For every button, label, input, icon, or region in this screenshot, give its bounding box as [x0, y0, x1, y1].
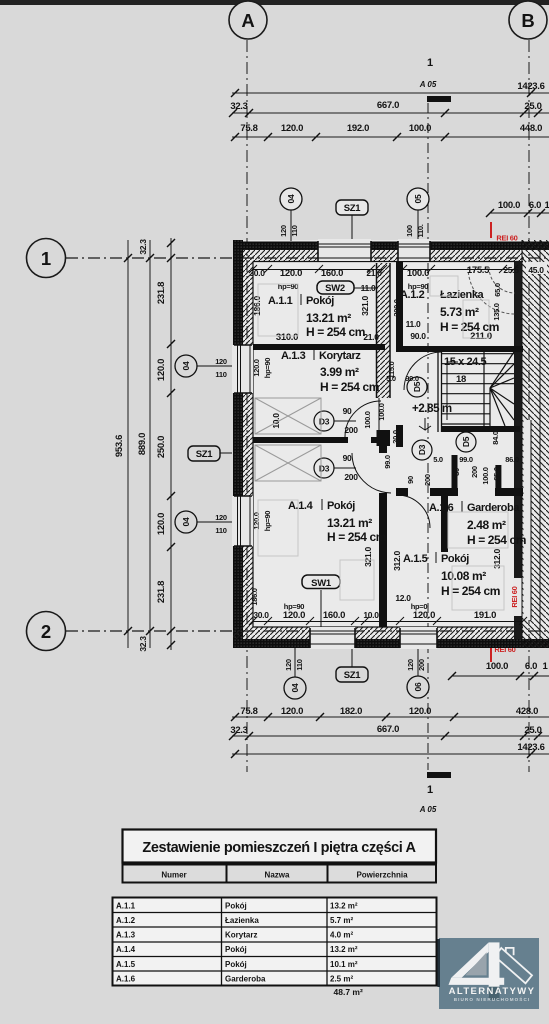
table title box: [123, 830, 437, 863]
svg-text:A.1.4: A.1.4: [116, 945, 136, 954]
svg-text:120.0: 120.0: [156, 359, 167, 381]
svg-text:99.0: 99.0: [383, 455, 392, 469]
svg-text:REI 60: REI 60: [496, 234, 517, 243]
top dimension ticks: [229, 89, 542, 141]
svg-text:25.0: 25.0: [524, 101, 541, 112]
stair direction arrow: [447, 362, 458, 420]
grid line A (vertical dash-dot): [246, 40, 248, 772]
svg-text:5.73 m²: 5.73 m²: [440, 305, 479, 319]
bottom dimension ticks: [229, 713, 542, 758]
svg-text:D3: D3: [319, 417, 330, 427]
wardrobe X boxes in corridor: [255, 398, 321, 481]
svg-text:321.0: 321.0: [363, 547, 373, 567]
svg-text:231.8: 231.8: [156, 282, 167, 304]
bathroom/stairs horizontal wall: [403, 346, 523, 352]
bathroom left wall: [396, 261, 403, 352]
interior wall A.1.1/A.1.3 horizontal: [253, 344, 385, 350]
top outer wall hatch leaf: [233, 250, 523, 262]
left dimension ticks: [124, 239, 175, 649]
svg-text:99.0: 99.0: [459, 455, 473, 464]
svg-text:05: 05: [413, 194, 423, 203]
bottom outer wall hatch leaf: [233, 627, 523, 639]
svg-text:hp=90: hp=90: [278, 282, 299, 291]
right neighbouring hatched zone: [522, 240, 549, 648]
furniture hints: [258, 276, 508, 610]
bottom outer wall insulated leaf: [233, 639, 549, 648]
door arc corridor up: [345, 401, 381, 437]
svg-text:D5: D5: [461, 436, 471, 447]
svg-text:A.1.6: A.1.6: [116, 975, 136, 984]
svg-text:2: 2: [41, 621, 51, 642]
left outer wall hatch leaf: [243, 249, 253, 627]
grid bubble A: [229, 1, 267, 39]
logo dark sliver: [438, 939, 441, 987]
garderoba / landing wall: [396, 488, 408, 496]
interior dim line bathroom: [399, 265, 518, 273]
svg-text:13.21 m²: 13.21 m²: [306, 311, 351, 325]
svg-text:SW1: SW1: [311, 578, 332, 589]
svg-text:hp=90: hp=90: [263, 358, 272, 379]
table row texts: [116, 902, 358, 984]
svg-text:100.0: 100.0: [363, 411, 372, 428]
svg-text:BIURO NIERUCHOMOŚCI: BIURO NIERUCHOMOŚCI: [454, 996, 531, 1002]
svg-text:200: 200: [470, 466, 479, 478]
svg-text:Zestawienie pomieszczeń I pięt: Zestawienie pomieszczeń I piętra części …: [142, 840, 416, 856]
svg-text:15 x 24.5: 15 x 24.5: [444, 356, 487, 368]
garderoba left wall: [441, 488, 448, 552]
svg-text:4.0 m²: 4.0 m²: [330, 931, 353, 940]
svg-text:04: 04: [181, 361, 191, 370]
grid line 1 (horizontal dash-dot): [66, 257, 549, 259]
window 100.0 in top wall (bathroom): [398, 239, 430, 261]
svg-text:13.2 m²: 13.2 m²: [330, 945, 358, 954]
svg-text:110: 110: [290, 225, 299, 236]
svg-text:30.0: 30.0: [249, 268, 265, 278]
svg-text:120: 120: [215, 513, 227, 522]
svg-text:321.0: 321.0: [360, 296, 370, 316]
svg-text:Pokój: Pokój: [225, 960, 247, 969]
right party wall: [514, 261, 522, 639]
grid bubble 2: [27, 612, 66, 651]
svg-text:32.3: 32.3: [230, 101, 247, 112]
svg-text:110: 110: [215, 526, 226, 535]
wall A.1.4 / A.1.5 vertical: [379, 437, 387, 453]
door hp=0 in bottom wall: [400, 627, 437, 649]
grid bubble 1: [27, 239, 66, 278]
svg-text:04: 04: [290, 683, 300, 692]
svg-text:A.1.1: A.1.1: [268, 295, 293, 307]
stairs treads: [441, 352, 514, 426]
svg-text:10.0: 10.0: [363, 610, 379, 620]
svg-text:06: 06: [413, 682, 423, 691]
svg-text:Pokój: Pokój: [441, 553, 469, 565]
svg-text:Łazienka: Łazienka: [225, 916, 259, 925]
svg-text:SZ1: SZ1: [344, 670, 362, 681]
svg-text:84.0: 84.0: [491, 431, 500, 445]
grid line 2 (horizontal dash-dot): [66, 630, 549, 632]
svg-text:2.5 m²: 2.5 m²: [330, 975, 353, 984]
svg-text:110: 110: [295, 659, 304, 670]
door tag D3 upper: [314, 411, 334, 431]
svg-text:65.0: 65.0: [492, 467, 501, 481]
svg-text:182.0: 182.0: [340, 706, 362, 717]
svg-text:A.1.5: A.1.5: [403, 553, 428, 565]
svg-text:Numer: Numer: [161, 871, 186, 880]
window SW1 in bottom wall: [310, 627, 355, 649]
svg-text:186.0: 186.0: [252, 296, 262, 316]
svg-text:100: 100: [405, 225, 414, 237]
stair bottom wall: [441, 426, 520, 432]
svg-text:Korytarz: Korytarz: [319, 350, 361, 362]
logo background plate: [439, 938, 539, 1009]
svg-text:13.2 m²: 13.2 m²: [330, 902, 358, 911]
logo 4 glyph vertical stroke: [489, 942, 500, 996]
svg-text:5.7 m²: 5.7 m²: [330, 916, 353, 925]
svg-text:A.1.3: A.1.3: [116, 931, 136, 940]
corridor door gap + jamb: [378, 398, 380, 430]
svg-text:ALTERNATYWY: ALTERNATYWY: [449, 986, 536, 997]
svg-text:90: 90: [406, 476, 415, 484]
shower arcs: [489, 267, 515, 293]
svg-text:H = 254 cm: H = 254 cm: [467, 533, 526, 547]
svg-text:200: 200: [344, 472, 358, 482]
svg-text:6.0: 6.0: [525, 661, 537, 672]
top annotation: SZ1 box: [336, 200, 368, 215]
left dimension lines: [128, 238, 171, 650]
svg-text:SW2: SW2: [325, 283, 345, 294]
svg-text:A.1.4: A.1.4: [288, 500, 314, 512]
svg-text:25.5: 25.5: [503, 265, 519, 275]
svg-text:120: 120: [279, 225, 288, 237]
left annotation: SZ1 box: [188, 446, 220, 461]
svg-text:186.0: 186.0: [250, 588, 259, 605]
svg-text:H = 254 cm: H = 254 cm: [306, 325, 365, 339]
svg-text:21.0: 21.0: [363, 332, 379, 342]
svg-text:32.3: 32.3: [230, 725, 247, 736]
svg-text:200.0: 200.0: [392, 299, 401, 316]
svg-text:115.0: 115.0: [387, 361, 396, 378]
svg-text:120: 120: [215, 357, 227, 366]
interior dim line bottom rooms: [249, 617, 527, 625]
svg-text:30.0: 30.0: [253, 610, 269, 620]
section line 1-1 (vertical dash-dot): [427, 103, 429, 770]
svg-text:11.0: 11.0: [406, 319, 421, 329]
logo chimney: [506, 948, 514, 955]
svg-text:100.0: 100.0: [481, 467, 490, 484]
svg-text:667.0: 667.0: [377, 724, 399, 735]
svg-text:90.0: 90.0: [410, 331, 426, 341]
svg-text:86.0: 86.0: [505, 455, 519, 464]
svg-text:A.1.3: A.1.3: [281, 350, 306, 362]
door arc bathroom: [404, 352, 442, 390]
svg-text:H = 254 cm: H = 254 cm: [327, 530, 386, 544]
svg-text:32.3: 32.3: [138, 636, 148, 652]
svg-text:04: 04: [286, 194, 296, 203]
svg-text:192.0: 192.0: [347, 123, 369, 134]
svg-text:D3: D3: [319, 464, 330, 474]
svg-text:667.0: 667.0: [377, 100, 399, 111]
svg-text:175.5: 175.5: [467, 265, 490, 276]
svg-text:250.0: 250.0: [156, 436, 167, 458]
svg-text:11.0: 11.0: [361, 283, 376, 293]
REI 60 red top: [490, 222, 492, 238]
svg-text:191.0: 191.0: [474, 610, 496, 621]
svg-text:21.0: 21.0: [366, 268, 382, 278]
svg-text:1: 1: [41, 248, 51, 269]
svg-text:A.1.1: A.1.1: [116, 902, 136, 911]
svg-text:25.0: 25.0: [524, 725, 541, 736]
svg-text:10.08 m²: 10.08 m²: [441, 569, 486, 583]
svg-text:A.1.5: A.1.5: [116, 960, 136, 969]
table header row: [123, 865, 437, 883]
door tag D3 lower: [314, 458, 334, 478]
left annotation: 04 bubble lower: [175, 511, 197, 533]
window tag SW2: [317, 281, 354, 294]
svg-text:120.0: 120.0: [413, 610, 435, 621]
svg-text:120.0: 120.0: [280, 268, 302, 279]
svg-text:312.0: 312.0: [392, 551, 402, 571]
left outer wall insulated leaf: [233, 240, 243, 648]
svg-text:80: 80: [452, 468, 461, 476]
svg-text:H = 254 cm: H = 254 cm: [441, 584, 500, 598]
svg-text:Garderoba: Garderoba: [225, 975, 266, 984]
svg-text:120.0: 120.0: [281, 706, 303, 717]
svg-text:12.0: 12.0: [395, 593, 411, 603]
door tag D5 landing: [407, 377, 427, 397]
svg-text:A.1.2: A.1.2: [400, 289, 425, 301]
svg-text:99.0: 99.0: [405, 374, 419, 383]
window left wall upper: [232, 345, 253, 393]
logo N tile: [489, 987, 500, 1000]
logo 4 bar: [449, 978, 505, 985]
logo roof outline: [495, 948, 532, 983]
svg-text:100.0: 100.0: [407, 268, 429, 279]
svg-text:04: 04: [181, 517, 191, 526]
svg-text:90: 90: [343, 453, 352, 463]
svg-text:120.0: 120.0: [409, 706, 431, 717]
svg-text:Korytarz: Korytarz: [225, 931, 257, 940]
svg-text:D3: D3: [417, 444, 427, 455]
svg-text:Łazienka: Łazienka: [440, 289, 485, 301]
top annotation: 04 bubble: [280, 188, 302, 210]
svg-text:889.0: 889.0: [137, 433, 148, 455]
svg-text:1: 1: [427, 57, 433, 69]
svg-text:32.3: 32.3: [138, 239, 148, 255]
svg-text:953.6: 953.6: [114, 435, 125, 457]
door tag D5 garderoba: [456, 432, 476, 452]
svg-text:160.0: 160.0: [323, 610, 345, 621]
svg-text:Powierzchnia: Powierzchnia: [356, 871, 408, 880]
grid bubble B: [509, 1, 547, 39]
svg-text:90: 90: [343, 406, 352, 416]
grid line B (vertical dash-dot): [528, 40, 530, 772]
stair left boundary (double thin line): [437, 352, 439, 432]
svg-text:120.0: 120.0: [252, 359, 261, 376]
bottom annotation: 06 bubble: [407, 676, 429, 698]
svg-text:120: 120: [406, 659, 415, 671]
svg-text:B: B: [521, 10, 534, 31]
svg-text:75.8: 75.8: [240, 706, 257, 717]
plan interior background: [233, 240, 549, 648]
svg-text:120.0: 120.0: [283, 610, 305, 621]
svg-text:Pokój: Pokój: [327, 500, 355, 512]
bottom annotation: SZ1 box: [336, 667, 368, 682]
svg-text:1423.6: 1423.6: [517, 81, 544, 92]
svg-text:SZ1: SZ1: [196, 449, 214, 460]
svg-text:231.8: 231.8: [156, 581, 167, 603]
top dimension lines: [232, 93, 549, 137]
svg-text:13.21 m²: 13.21 m²: [327, 516, 372, 530]
svg-text:A 05: A 05: [419, 805, 437, 814]
svg-text:120.0: 120.0: [252, 512, 261, 529]
svg-text:45.0: 45.0: [528, 265, 544, 275]
svg-text:160.0: 160.0: [321, 268, 343, 279]
svg-text:65.0: 65.0: [493, 283, 502, 297]
window SW2 in top wall: [318, 239, 371, 261]
top dark strip: [0, 0, 549, 5]
bottom annotation: 04 bubble: [284, 677, 306, 699]
svg-text:1: 1: [427, 784, 433, 796]
top annotation: 05 bubble: [407, 188, 429, 210]
svg-text:100.0: 100.0: [498, 200, 520, 211]
interior hatched shaft wall A.1.1/corridor side: [377, 263, 391, 398]
section marker 1 bottom: [427, 772, 451, 778]
svg-text:48.7 m²: 48.7 m²: [334, 987, 363, 997]
svg-text:120.0: 120.0: [281, 123, 303, 134]
svg-text:10.1 m²: 10.1 m²: [330, 960, 358, 969]
svg-text:110: 110: [215, 370, 226, 379]
svg-text:Pokój: Pokój: [225, 945, 247, 954]
svg-text:5.0: 5.0: [433, 455, 443, 464]
svg-text:120: 120: [284, 659, 293, 671]
svg-text:A.1.2: A.1.2: [116, 916, 136, 925]
svg-text:H = 254 cm: H = 254 cm: [320, 380, 379, 394]
left annotation: 04 bubble upper: [175, 355, 197, 377]
svg-text:200: 200: [344, 425, 358, 435]
table data rows: [113, 898, 437, 986]
svg-text:100.0: 100.0: [377, 403, 386, 420]
svg-text:hp=90: hp=90: [263, 511, 272, 532]
REI60 white gap in party wall: [513, 578, 523, 616]
svg-text:A: A: [241, 10, 254, 31]
door arc into A.1.4: [352, 453, 391, 493]
svg-text:100.0: 100.0: [409, 123, 431, 134]
svg-text:200: 200: [423, 474, 432, 486]
svg-text:1423.6: 1423.6: [517, 742, 544, 753]
svg-text:448.0: 448.0: [520, 123, 542, 134]
door tag D3 mid: [412, 440, 432, 460]
svg-text:REI 60: REI 60: [510, 586, 519, 607]
svg-text:2.48 m²: 2.48 m²: [467, 518, 506, 532]
svg-text:120.0: 120.0: [156, 513, 167, 535]
svg-text:Pokój: Pokój: [306, 295, 334, 307]
svg-text:310.0: 310.0: [276, 332, 298, 343]
svg-text:SZ1: SZ1: [344, 203, 362, 214]
svg-text:Nazwa: Nazwa: [265, 871, 290, 880]
svg-text:428.0: 428.0: [516, 706, 538, 717]
logo 4 counter triangle: [465, 952, 486, 975]
window left wall lower: [232, 496, 253, 546]
svg-text:18: 18: [456, 374, 466, 385]
svg-text:20.0: 20.0: [391, 430, 400, 444]
svg-text:3.99 m²: 3.99 m²: [320, 365, 359, 379]
top outer wall (insulated leaf): [233, 242, 549, 251]
door jambs: [396, 425, 403, 447]
interior dim line A.1.1: [249, 265, 387, 273]
white strip in party zone lower: [524, 420, 532, 620]
svg-text:75.8: 75.8: [240, 123, 257, 134]
bottom dimension lines: [232, 717, 549, 754]
window tag SW1: [302, 575, 340, 589]
svg-text:Pokój: Pokój: [225, 902, 247, 911]
svg-text:110.: 110.: [416, 224, 425, 237]
interior wall corridor/A.1.4 horizontal: [253, 437, 348, 443]
svg-text:135.0: 135.0: [492, 303, 501, 320]
svg-text:A 05: A 05: [419, 80, 437, 89]
svg-text:100.0: 100.0: [486, 661, 508, 672]
svg-text:+2.85 m: +2.85 m: [412, 403, 452, 415]
logo 4 diagonal band: [451, 942, 489, 977]
door arc into A.1.5: [397, 495, 430, 528]
